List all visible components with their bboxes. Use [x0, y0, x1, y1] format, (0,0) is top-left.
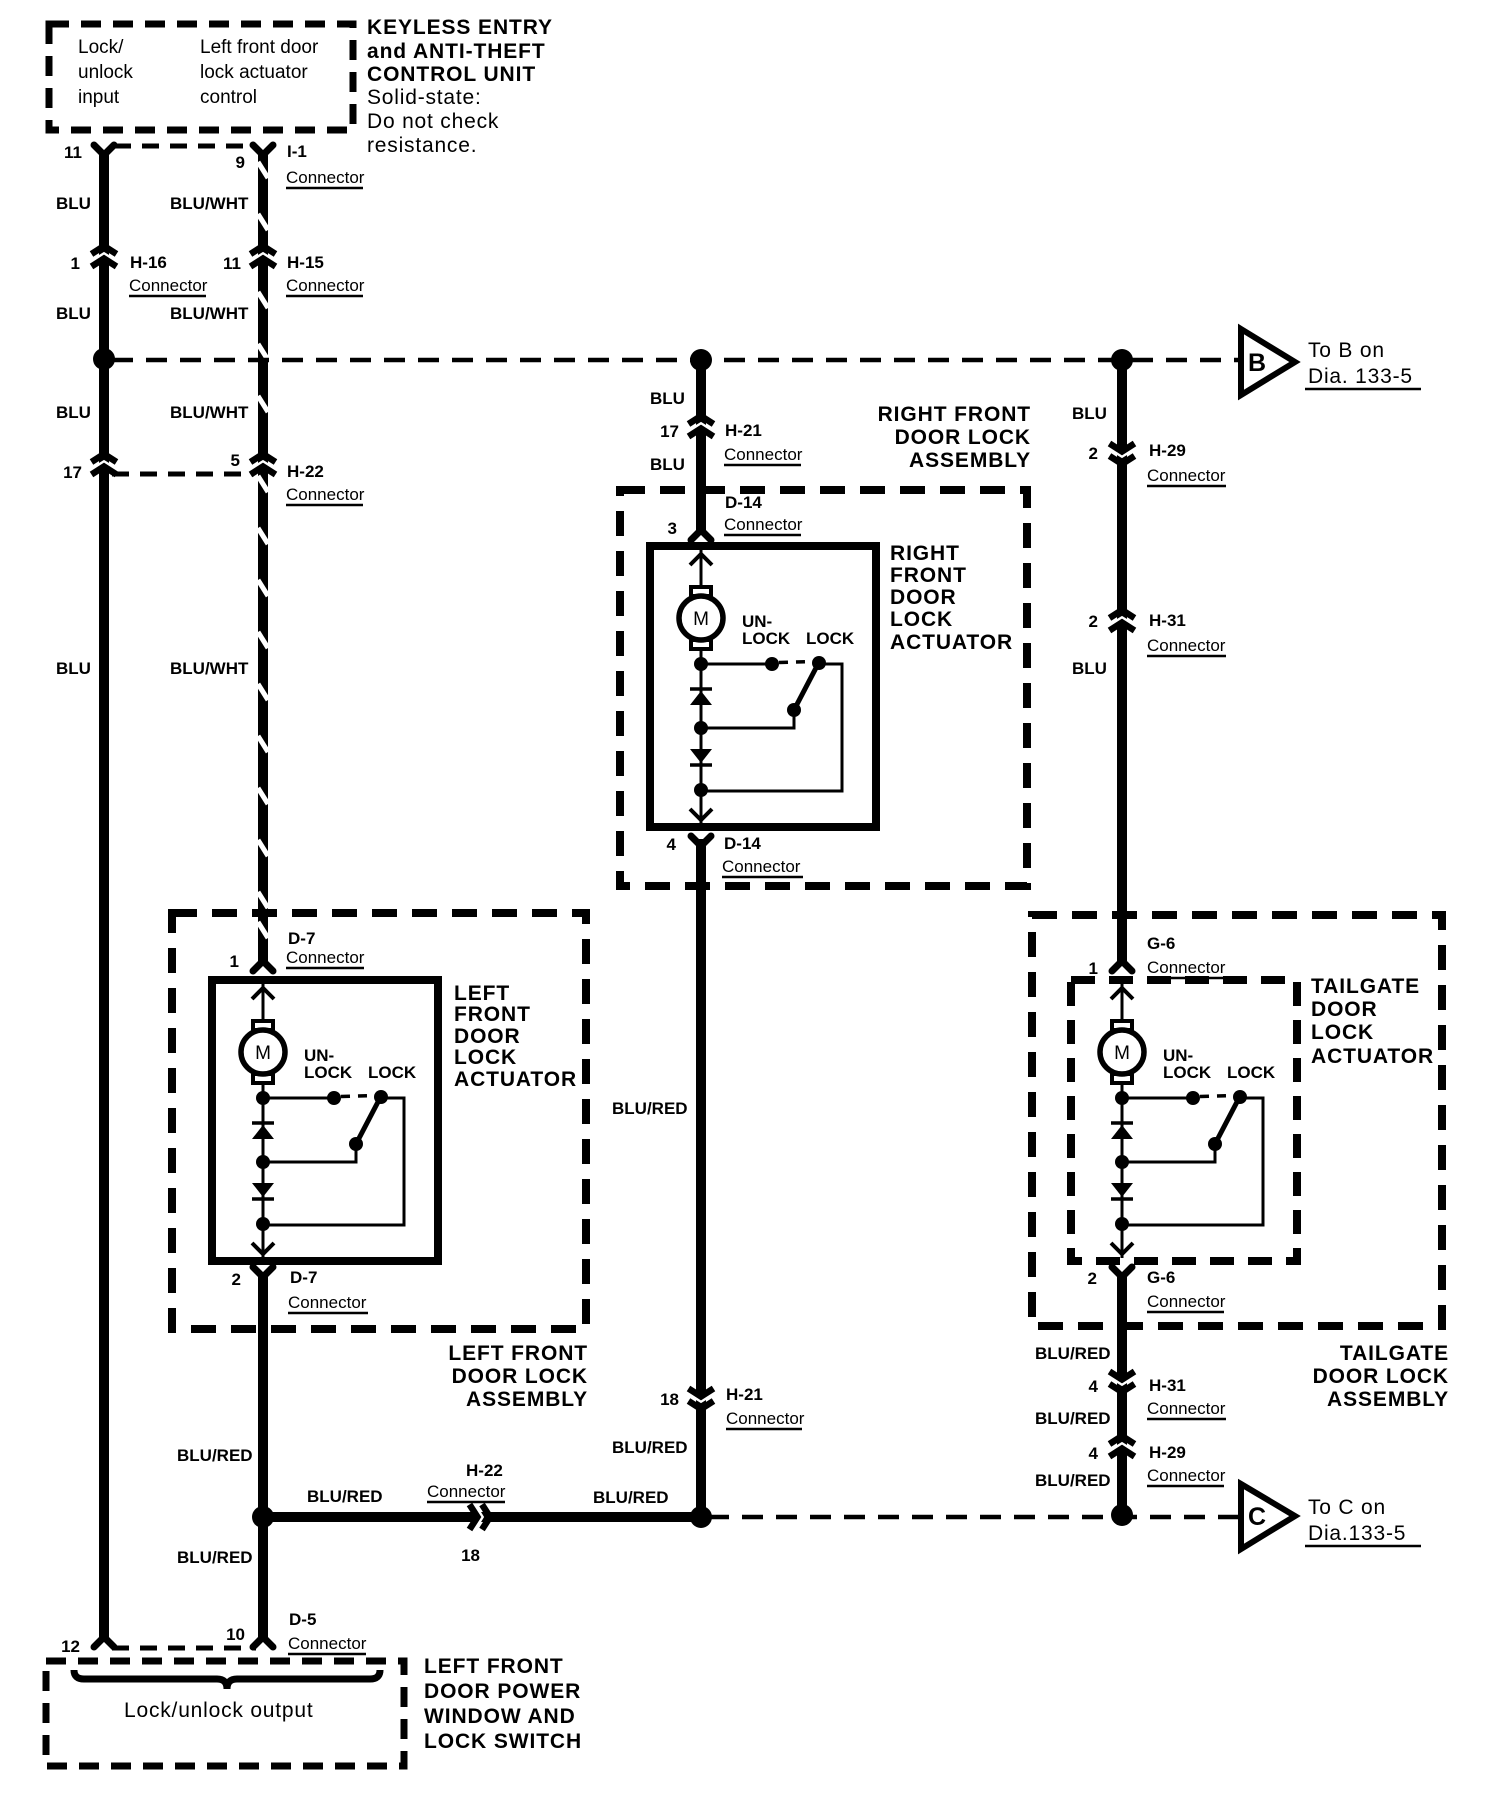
svg-text:BLU/WHT: BLU/WHT	[170, 304, 249, 323]
svg-text:Connector: Connector	[286, 485, 365, 504]
svg-text:Connector: Connector	[1147, 466, 1226, 485]
svg-text:TAILGATE: TAILGATE	[1311, 975, 1420, 998]
svg-text:Connector: Connector	[1147, 1466, 1226, 1485]
svg-text:BLU/RED: BLU/RED	[1035, 1344, 1111, 1363]
svg-text:H-22: H-22	[287, 462, 324, 481]
svg-text:DOOR: DOOR	[454, 1025, 521, 1048]
svg-text:BLU: BLU	[650, 389, 685, 408]
connector H-22 pin 17	[91, 454, 117, 475]
wire: dashed net to B	[112, 358, 1238, 363]
left front door power window and lock switch dashed box	[46, 1661, 404, 1766]
svg-text:Connector: Connector	[129, 276, 208, 295]
svg-text:D-14: D-14	[725, 493, 762, 512]
svg-text:BLU/RED: BLU/RED	[177, 1446, 253, 1465]
svg-text:2: 2	[232, 1270, 241, 1289]
svg-text:BLU: BLU	[1072, 404, 1107, 423]
svg-text:4: 4	[1089, 1444, 1099, 1463]
svg-text:BLU: BLU	[56, 194, 91, 213]
svg-text:Connector: Connector	[1147, 636, 1226, 655]
svg-text:H-21: H-21	[725, 421, 762, 440]
wire: left BLU column (pin 11 to pin 12)	[99, 151, 109, 1641]
svg-text:Lock/: Lock/	[78, 37, 124, 58]
connector D-14 pin 4	[691, 836, 711, 846]
tailgate door lock assembly dashed box	[1032, 915, 1442, 1326]
svg-text:H-29: H-29	[1149, 1443, 1186, 1462]
svg-text:LEFT: LEFT	[454, 982, 510, 1005]
svg-text:4: 4	[1089, 1377, 1099, 1396]
svg-text:17: 17	[660, 422, 679, 441]
connector H-22 pin 5	[250, 454, 276, 475]
svg-text:To C on: To C on	[1308, 1496, 1386, 1519]
connector G-6 pin 2	[1112, 1267, 1132, 1277]
connector D-14 pin 3	[691, 530, 711, 540]
svg-text:Connector: Connector	[726, 1409, 805, 1428]
wire: right BLU column (node B to G-6 pin 1)	[1117, 360, 1127, 963]
wire: dashed link pins 12-10	[112, 1646, 256, 1651]
wire: dashed link pins 11-9	[114, 144, 252, 149]
connector D-7 pin 2	[253, 1267, 273, 1277]
motor M3 tailgate actuator internals	[1100, 983, 1276, 1258]
svg-text:Connector: Connector	[1147, 958, 1226, 977]
connector H-15 pin 11	[250, 246, 276, 267]
svg-text:Lock/unlock output: Lock/unlock output	[124, 1699, 314, 1722]
left front door lock assembly dashed box	[172, 913, 586, 1329]
svg-text:To B on: To B on	[1308, 339, 1385, 362]
svg-text:3: 3	[668, 519, 677, 538]
svg-text:RIGHT: RIGHT	[890, 542, 960, 565]
svg-text:BLU/WHT: BLU/WHT	[170, 659, 249, 678]
connector D-5 pin 10	[253, 1637, 273, 1647]
svg-text:H-15: H-15	[287, 253, 324, 272]
svg-text:Connector: Connector	[427, 1482, 506, 1501]
svg-text:KEYLESS ENTRY: KEYLESS ENTRY	[367, 16, 553, 39]
connector H-16 pin 1	[91, 246, 117, 267]
svg-text:Connector: Connector	[286, 276, 365, 295]
svg-text:Connector: Connector	[1147, 1292, 1226, 1311]
svg-text:control: control	[200, 87, 257, 108]
svg-text:C: C	[1248, 1503, 1267, 1531]
control unit box: KEYLESS ENTRY and ANTI-THEFT CONTROL UNIT	[49, 24, 353, 130]
svg-text:ASSEMBLY: ASSEMBLY	[909, 449, 1031, 472]
svg-text:2: 2	[1089, 444, 1098, 463]
svg-text:H-31: H-31	[1149, 1376, 1186, 1395]
svg-text:1: 1	[230, 952, 239, 971]
svg-text:Connector: Connector	[286, 168, 365, 187]
svg-text:Connector: Connector	[288, 1293, 367, 1312]
svg-text:FRONT: FRONT	[890, 564, 967, 587]
svg-text:BLU: BLU	[56, 659, 91, 678]
svg-text:BLU: BLU	[56, 403, 91, 422]
svg-text:18: 18	[660, 1390, 679, 1409]
tailgate door lock actuator dashed box	[1071, 980, 1297, 1261]
svg-text:LEFT FRONT: LEFT FRONT	[448, 1342, 588, 1365]
svg-text:BLU/WHT: BLU/WHT	[170, 403, 249, 422]
svg-text:resistance.: resistance.	[367, 134, 477, 157]
svg-text:1: 1	[1089, 959, 1098, 978]
svg-text:BLU/RED: BLU/RED	[177, 1548, 253, 1567]
svg-text:BLU/RED: BLU/RED	[612, 1099, 688, 1118]
svg-text:DOOR: DOOR	[890, 586, 957, 609]
node B off-page triangle	[1241, 329, 1295, 395]
svg-text:WINDOW AND: WINDOW AND	[424, 1705, 576, 1728]
svg-text:D-7: D-7	[288, 929, 315, 948]
connector H-29 pin 4 lower	[1109, 1436, 1135, 1457]
wire: BLU/WHT striped column (pin 9 to D-7 pin 1)	[258, 151, 268, 963]
connector H-22 pin 18 horizontal	[470, 1504, 491, 1530]
svg-text:DOOR LOCK: DOOR LOCK	[895, 426, 1031, 449]
svg-text:Connector: Connector	[286, 948, 365, 967]
svg-text:D-7: D-7	[290, 1268, 317, 1287]
wire: dashed link H-22 pins 17-5	[112, 472, 254, 477]
connector H-21 pin 18	[688, 1389, 714, 1410]
svg-text:unlock: unlock	[78, 62, 133, 83]
svg-text:Do not check: Do not check	[367, 110, 499, 133]
svg-text:11: 11	[64, 143, 82, 162]
svg-text:17: 17	[63, 463, 82, 482]
node BLU/RED right junction	[1111, 1504, 1133, 1526]
svg-text:ASSEMBLY: ASSEMBLY	[1327, 1388, 1449, 1411]
svg-text:LOCK: LOCK	[890, 608, 953, 631]
svg-text:DOOR POWER: DOOR POWER	[424, 1680, 581, 1703]
svg-text:BLU/RED: BLU/RED	[1035, 1409, 1111, 1428]
svg-text:ASSEMBLY: ASSEMBLY	[466, 1388, 588, 1411]
right front door lock actuator box	[650, 546, 876, 827]
svg-text:11: 11	[223, 254, 241, 273]
svg-text:Dia. 133-5: Dia. 133-5	[1308, 365, 1413, 388]
node on B net middle	[690, 349, 712, 371]
motor M1 left actuator internals	[241, 983, 417, 1258]
svg-text:Connector: Connector	[724, 445, 803, 464]
svg-text:H-16: H-16	[130, 253, 167, 272]
wire: middle BLU column (node B to D-14 pin 3)	[696, 360, 706, 532]
node BLU/RED left junction	[252, 1506, 274, 1528]
motor M2 right actuator internals	[679, 549, 855, 824]
svg-text:G-6: G-6	[1147, 934, 1175, 953]
svg-text:BLU/RED: BLU/RED	[612, 1438, 688, 1457]
svg-text:G-6: G-6	[1147, 1268, 1175, 1287]
svg-text:DOOR: DOOR	[1311, 998, 1378, 1021]
svg-text:BLU/RED: BLU/RED	[307, 1487, 383, 1506]
svg-text:BLU: BLU	[650, 455, 685, 474]
node C off-page triangle	[1241, 1484, 1295, 1549]
svg-text:D-14: D-14	[724, 834, 761, 853]
svg-text:DOOR LOCK: DOOR LOCK	[452, 1365, 588, 1388]
svg-text:ACTUATOR: ACTUATOR	[890, 631, 1013, 654]
svg-text:Connector: Connector	[724, 515, 803, 534]
svg-text:10: 10	[226, 1625, 245, 1644]
svg-text:2: 2	[1089, 612, 1098, 631]
connector pin 12 (switch)	[94, 1637, 114, 1647]
connector D-7 pin 1	[253, 961, 273, 971]
svg-text:DOOR LOCK: DOOR LOCK	[1313, 1365, 1449, 1388]
wire: right BLU/RED column (G-6 pin 2 to node C line)	[1117, 1274, 1127, 1515]
wire: dashed net to C	[708, 1515, 1238, 1520]
svg-text:Connector: Connector	[1147, 1399, 1226, 1418]
wire: BLU/RED column (D-7 pin 2 to pin 10)	[258, 1274, 268, 1641]
connector H-21 pin 17	[688, 416, 714, 437]
svg-text:BLU: BLU	[56, 304, 91, 323]
svg-text:BLU/WHT: BLU/WHT	[170, 194, 249, 213]
svg-text:18: 18	[461, 1546, 480, 1565]
svg-text:4: 4	[667, 835, 677, 854]
svg-text:TAILGATE: TAILGATE	[1340, 1342, 1449, 1365]
connector H-31 pin 4 lower	[1109, 1372, 1135, 1393]
connector H-29 pin 2 upper	[1109, 444, 1135, 465]
svg-text:RIGHT FRONT: RIGHT FRONT	[878, 403, 1031, 426]
svg-text:H-22: H-22	[466, 1461, 503, 1480]
svg-text:LOCK SWITCH: LOCK SWITCH	[424, 1730, 582, 1753]
svg-text:I-1: I-1	[287, 142, 307, 161]
connector H-31 pin 2 upper	[1109, 610, 1135, 631]
svg-text:ACTUATOR: ACTUATOR	[454, 1068, 577, 1091]
wire: horizontal BLU/RED (junction to H-22)	[263, 1512, 701, 1522]
svg-text:1: 1	[71, 254, 80, 273]
svg-text:H-29: H-29	[1149, 441, 1186, 460]
svg-text:Solid-state:: Solid-state:	[367, 86, 482, 109]
svg-text:and ANTI-THEFT: and ANTI-THEFT	[367, 40, 546, 63]
svg-text:12: 12	[61, 1637, 80, 1656]
svg-text:D-5: D-5	[289, 1610, 316, 1629]
connector G-6 pin 1	[1112, 961, 1132, 971]
svg-text:5: 5	[231, 451, 240, 470]
svg-text:9: 9	[236, 153, 245, 172]
svg-text:H-21: H-21	[726, 1385, 763, 1404]
node A (BLU tap)	[93, 348, 115, 370]
svg-text:B: B	[1248, 349, 1267, 377]
svg-text:ACTUATOR: ACTUATOR	[1311, 1045, 1434, 1068]
svg-text:input: input	[78, 87, 120, 108]
svg-text:2: 2	[1088, 1269, 1097, 1288]
connector pin 11 (control unit)	[94, 145, 114, 155]
svg-text:LOCK: LOCK	[1311, 1021, 1374, 1044]
brace lock/unlock output	[74, 1670, 380, 1689]
connector pin 9 I-1	[253, 145, 273, 155]
svg-text:H-31: H-31	[1149, 611, 1186, 630]
svg-text:Connector: Connector	[288, 1634, 367, 1653]
svg-text:BLU/RED: BLU/RED	[593, 1488, 669, 1507]
left front door lock actuator box	[212, 980, 438, 1261]
svg-text:LEFT FRONT: LEFT FRONT	[424, 1655, 564, 1678]
node on B net right	[1111, 349, 1133, 371]
svg-text:FRONT: FRONT	[454, 1003, 531, 1026]
svg-text:BLU: BLU	[1072, 659, 1107, 678]
svg-text:LOCK: LOCK	[454, 1046, 517, 1069]
svg-text:BLU/RED: BLU/RED	[1035, 1471, 1111, 1490]
svg-text:lock actuator: lock actuator	[200, 62, 308, 83]
svg-text:Dia.133-5: Dia.133-5	[1308, 1522, 1406, 1545]
wire: middle BLU/RED column (D-14 pin 4 to node C line)	[696, 839, 706, 1517]
svg-text:Connector: Connector	[722, 857, 801, 876]
svg-text:CONTROL UNIT: CONTROL UNIT	[367, 63, 536, 86]
right front door lock assembly dashed box	[620, 490, 1027, 886]
node BLU/RED middle junction	[690, 1506, 712, 1528]
svg-text:Left front door: Left front door	[200, 37, 319, 58]
